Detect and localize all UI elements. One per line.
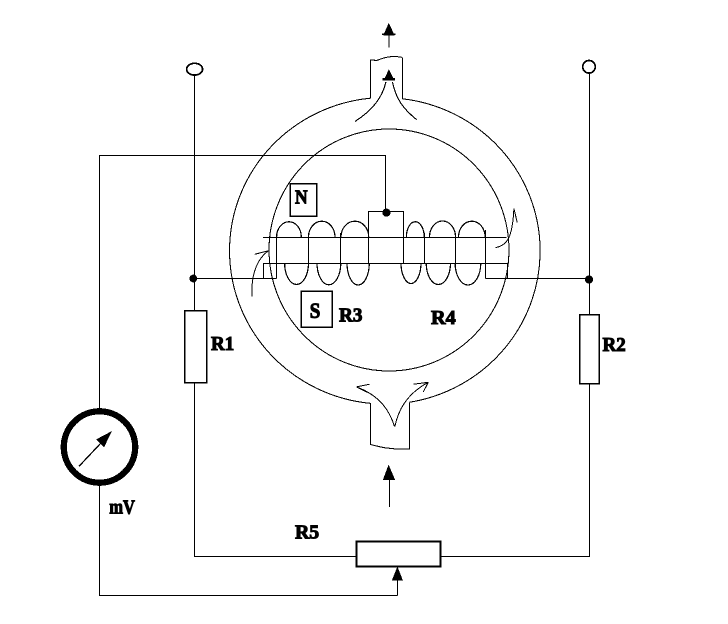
svg-text:mV: mV <box>109 496 135 518</box>
magnet pole N box <box>290 184 316 216</box>
wire meter top to center tap <box>100 156 386 409</box>
terminal T2 (right) <box>583 61 596 74</box>
node A junction dot <box>189 275 197 283</box>
svg-text:R2: R2 <box>603 334 626 356</box>
svg-text:R3: R3 <box>339 305 362 327</box>
wire R1 bottom to R5 left <box>195 382 357 556</box>
streamline top right <box>392 82 416 120</box>
core bottom rail <box>264 263 508 265</box>
resistor R2 <box>580 315 600 384</box>
resistor R1 <box>185 311 207 383</box>
svg-text:N: N <box>295 187 308 209</box>
flow split arrow bottom-right <box>395 382 429 426</box>
flow split arrow bottom-left <box>357 384 395 426</box>
nozzle (bottom) <box>371 402 410 449</box>
wire lead left (node A to coil start) <box>195 237 277 279</box>
outer pipe circle (with top/bottom nozzle gaps) <box>230 98 541 403</box>
wire lead right (coil end to node B) <box>486 230 590 279</box>
magnet pole S box <box>301 291 332 327</box>
streamline top left <box>355 82 386 122</box>
wire left vertical (T1 down to node A) <box>194 75 196 311</box>
svg-text:R4: R4 <box>431 307 456 329</box>
flow arrow annulus left <box>252 251 269 297</box>
wire right vertical (T2 down to node B) <box>589 73 591 315</box>
flow arrow top outer <box>382 23 396 48</box>
wiper arrow of R5 <box>392 567 403 596</box>
coil R4 <box>401 221 485 285</box>
flow arrow bottom <box>383 465 395 507</box>
inner pipe circle <box>269 129 509 371</box>
flow arrow top inner <box>383 69 396 80</box>
core top rail <box>263 237 507 239</box>
chimney (top nozzle) <box>371 56 403 99</box>
center tap of coil <box>369 212 404 264</box>
flow arrow annulus right <box>496 209 518 248</box>
coil R3 <box>277 221 370 285</box>
svg-text:R5: R5 <box>295 522 319 544</box>
wire R2 bottom to R5 right <box>441 384 590 557</box>
potentiometer R5 <box>357 542 441 567</box>
svg-text:S: S <box>310 298 321 323</box>
wire meter bottom to wiper <box>100 486 398 596</box>
node B junction dot <box>585 275 593 283</box>
meter needle <box>79 431 112 466</box>
svg-text:R1: R1 <box>211 333 234 355</box>
meter mV body <box>64 411 135 482</box>
terminal T1 (left) <box>187 63 203 75</box>
center tap node dot <box>382 209 390 217</box>
